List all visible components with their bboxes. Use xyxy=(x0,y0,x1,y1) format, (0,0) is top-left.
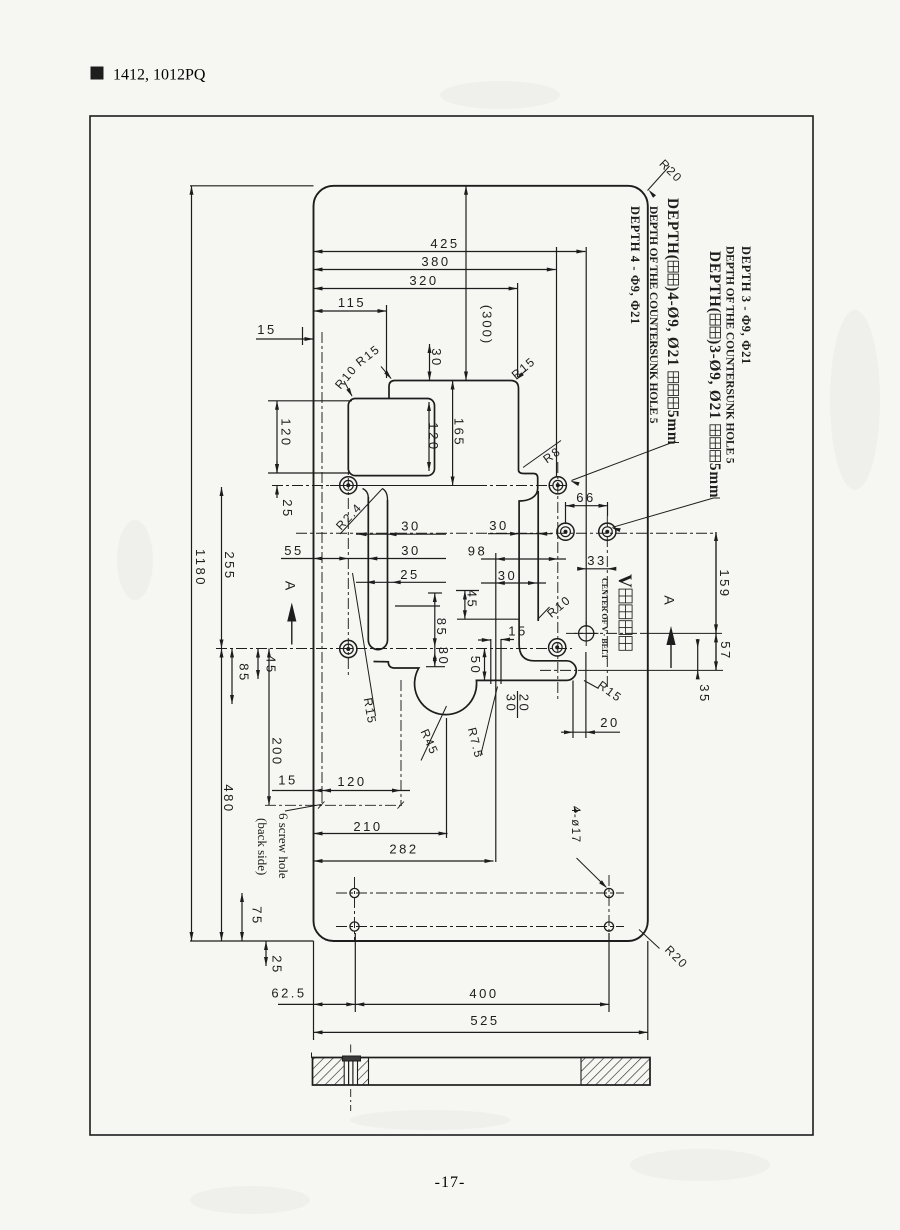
svg-text:30: 30 xyxy=(401,543,420,558)
svg-text:66: 66 xyxy=(576,490,595,505)
svg-text:25: 25 xyxy=(400,567,419,582)
svg-text:165: 165 xyxy=(452,418,467,447)
svg-text:A: A xyxy=(662,595,678,605)
svg-text:400: 400 xyxy=(469,986,498,1001)
svg-text:DEPTH OF THE COUNTERSUNK HOLE: DEPTH OF THE COUNTERSUNK HOLE 5 xyxy=(724,246,736,464)
svg-text:30: 30 xyxy=(489,518,508,533)
svg-text:(300): (300) xyxy=(480,305,495,345)
svg-text:30: 30 xyxy=(504,694,519,713)
svg-text:25: 25 xyxy=(270,955,285,974)
svg-text:62.5: 62.5 xyxy=(271,985,306,1000)
svg-text:)3-Ø9, Ø21: )3-Ø9, Ø21 xyxy=(706,339,723,419)
svg-text:50: 50 xyxy=(468,656,483,675)
svg-text:1180: 1180 xyxy=(193,549,208,587)
svg-text:CENTER OF V - BELT: CENTER OF V - BELT xyxy=(600,578,609,660)
svg-text:85: 85 xyxy=(237,663,252,682)
svg-text:120: 120 xyxy=(426,422,441,451)
svg-text:5mm: 5mm xyxy=(664,410,681,446)
svg-text:30: 30 xyxy=(401,518,420,533)
svg-text:5mm: 5mm xyxy=(706,463,723,499)
svg-text:20: 20 xyxy=(600,715,619,730)
svg-text:380: 380 xyxy=(421,254,450,269)
svg-text:115: 115 xyxy=(338,295,366,310)
svg-text:282: 282 xyxy=(389,841,418,856)
svg-text:15: 15 xyxy=(278,772,297,787)
svg-text:6 screw hole: 6 screw hole xyxy=(276,813,291,879)
svg-text:57: 57 xyxy=(718,641,733,660)
svg-text:210: 210 xyxy=(353,819,382,834)
svg-text:15: 15 xyxy=(257,322,276,337)
svg-text:33: 33 xyxy=(587,553,606,568)
svg-text:20: 20 xyxy=(517,694,532,713)
svg-text:)4-Ø9, Ø21: )4-Ø9, Ø21 xyxy=(664,286,681,366)
svg-text:1412, 1012PQ: 1412, 1012PQ xyxy=(113,67,206,84)
svg-text:525: 525 xyxy=(470,1013,499,1028)
svg-text:55: 55 xyxy=(284,543,303,558)
svg-text:DEPTH 3 - Φ9, Φ21: DEPTH 3 - Φ9, Φ21 xyxy=(739,246,753,365)
svg-text:DEPTH(: DEPTH( xyxy=(706,251,723,314)
svg-text:120: 120 xyxy=(279,418,294,447)
svg-text:120: 120 xyxy=(337,774,366,789)
svg-text:-17-: -17- xyxy=(435,1174,466,1191)
svg-text:255: 255 xyxy=(222,551,237,580)
svg-text:98: 98 xyxy=(468,543,487,558)
svg-text:30: 30 xyxy=(436,647,451,666)
svg-text:V: V xyxy=(614,574,635,589)
svg-text:30: 30 xyxy=(429,348,444,367)
svg-text:320: 320 xyxy=(409,273,438,288)
svg-text:30: 30 xyxy=(498,568,517,583)
svg-text:480: 480 xyxy=(221,784,236,813)
svg-text:85: 85 xyxy=(434,618,449,637)
svg-text:DEPTH 4 - Φ9, Φ21: DEPTH 4 - Φ9, Φ21 xyxy=(628,206,642,325)
svg-text:25: 25 xyxy=(280,499,295,518)
svg-text:45: 45 xyxy=(264,655,279,674)
svg-text:45: 45 xyxy=(465,590,480,609)
svg-text:200: 200 xyxy=(270,737,285,766)
svg-text:35: 35 xyxy=(697,684,712,703)
svg-text:DEPTH OF THE COUNTERSUNK HOLE: DEPTH OF THE COUNTERSUNK HOLE 5 xyxy=(647,206,659,424)
svg-text:159: 159 xyxy=(717,569,732,598)
svg-text:(back side): (back side) xyxy=(255,818,270,875)
svg-text:DEPTH(: DEPTH( xyxy=(664,198,681,261)
svg-text:15: 15 xyxy=(508,623,527,638)
svg-text:75: 75 xyxy=(250,906,265,925)
svg-text:A: A xyxy=(283,581,299,591)
svg-text:425: 425 xyxy=(430,236,459,251)
